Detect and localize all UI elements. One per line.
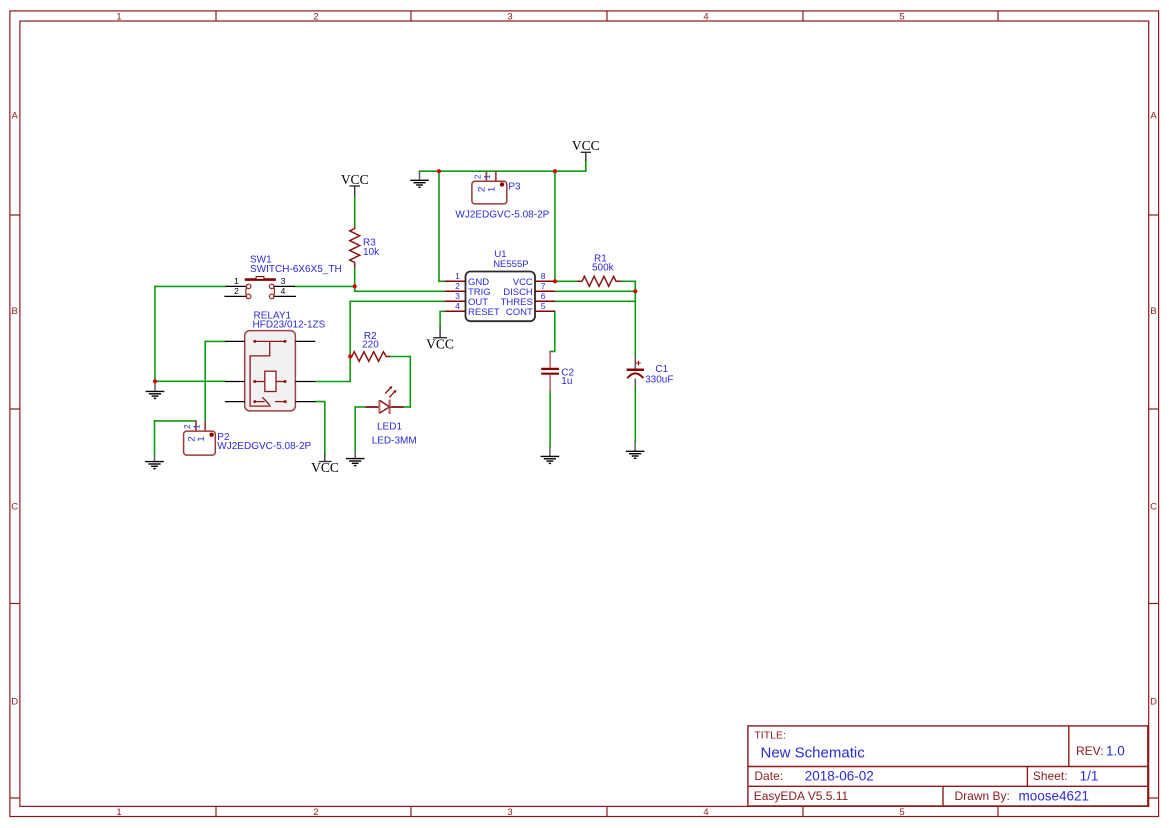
svg-text:2018-06-02: 2018-06-02 <box>805 768 874 783</box>
svg-text:220: 220 <box>362 340 379 351</box>
svg-text:7: 7 <box>541 281 546 291</box>
svg-text:2: 2 <box>473 174 482 179</box>
svg-text:B: B <box>1150 306 1156 317</box>
svg-text:HFD23/012-1ZS: HFD23/012-1ZS <box>253 320 326 331</box>
svg-text:1: 1 <box>196 436 207 441</box>
svg-text:VCC: VCC <box>341 172 369 187</box>
svg-text:330uF: 330uF <box>645 374 673 385</box>
svg-text:1: 1 <box>455 271 460 281</box>
svg-text:1: 1 <box>487 187 498 192</box>
svg-text:New Schematic: New Schematic <box>761 745 866 762</box>
svg-text:1: 1 <box>234 276 239 286</box>
svg-text:CONT: CONT <box>506 307 533 318</box>
svg-text:3: 3 <box>507 807 512 818</box>
svg-text:8: 8 <box>541 271 546 281</box>
svg-text:2: 2 <box>313 807 318 818</box>
svg-text:LED-3MM: LED-3MM <box>372 435 417 446</box>
svg-text:3: 3 <box>507 11 512 22</box>
svg-text:1: 1 <box>116 807 121 818</box>
svg-text:VCC: VCC <box>311 460 339 475</box>
svg-text:1/1: 1/1 <box>1080 768 1099 783</box>
svg-text:500k: 500k <box>592 263 615 274</box>
svg-text:2: 2 <box>183 424 192 429</box>
svg-text:4: 4 <box>455 301 460 311</box>
svg-text:4: 4 <box>703 807 708 818</box>
svg-text:moose4621: moose4621 <box>1019 789 1090 804</box>
svg-text:10k: 10k <box>363 247 380 258</box>
svg-text:RESET: RESET <box>468 307 500 318</box>
svg-text:6: 6 <box>541 291 546 301</box>
svg-text:VCC: VCC <box>572 138 600 153</box>
svg-text:5: 5 <box>541 301 546 311</box>
svg-text:+: + <box>636 358 642 369</box>
svg-text:1u: 1u <box>561 376 572 387</box>
svg-text:C: C <box>1150 502 1157 513</box>
svg-text:1: 1 <box>193 424 202 429</box>
svg-text:1.0: 1.0 <box>1106 744 1125 759</box>
svg-text:4: 4 <box>281 286 286 296</box>
svg-text:B: B <box>12 306 18 317</box>
svg-text:5: 5 <box>899 807 904 818</box>
svg-text:4: 4 <box>703 11 708 22</box>
svg-text:C: C <box>11 502 18 513</box>
svg-text:LED1: LED1 <box>377 422 402 433</box>
svg-text:2: 2 <box>234 286 239 296</box>
svg-text:D: D <box>1150 697 1157 708</box>
svg-text:5: 5 <box>899 11 904 22</box>
svg-text:REV:: REV: <box>1076 744 1104 758</box>
svg-text:1: 1 <box>116 11 121 22</box>
svg-text:3: 3 <box>281 276 286 286</box>
svg-text:A: A <box>12 111 19 122</box>
svg-text:EasyEDA V5.5.11: EasyEDA V5.5.11 <box>754 789 849 803</box>
svg-text:2: 2 <box>313 11 318 22</box>
svg-text:Sheet:: Sheet: <box>1033 769 1068 783</box>
svg-text:Drawn By:: Drawn By: <box>955 789 1010 803</box>
svg-text:SWITCH-6X6X5_TH: SWITCH-6X6X5_TH <box>250 264 342 275</box>
svg-text:TITLE:: TITLE: <box>754 730 786 742</box>
svg-text:VCC: VCC <box>426 337 454 352</box>
svg-text:C1: C1 <box>655 364 668 375</box>
svg-text:D: D <box>11 697 18 708</box>
svg-text:3: 3 <box>455 291 460 301</box>
svg-text:Date:: Date: <box>754 769 783 783</box>
svg-text:WJ2EDGVC-5.08-2P: WJ2EDGVC-5.08-2P <box>455 209 549 220</box>
svg-text:WJ2EDGVC-5.08-2P: WJ2EDGVC-5.08-2P <box>217 441 311 452</box>
svg-text:P3: P3 <box>508 182 521 193</box>
svg-text:A: A <box>1150 111 1157 122</box>
svg-text:2: 2 <box>455 281 460 291</box>
svg-text:NE555P: NE555P <box>493 259 528 270</box>
svg-text:1: 1 <box>483 174 492 179</box>
